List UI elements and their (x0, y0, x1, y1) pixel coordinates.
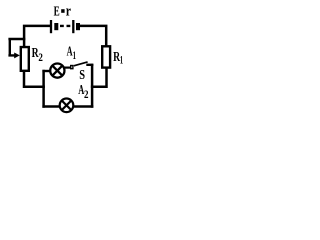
wire right junction vertical (91, 64, 94, 108)
rheostat R2 box (21, 47, 29, 71)
wire A2 branch left (42, 105, 60, 108)
svg-text:S: S (79, 68, 85, 83)
svg-text:E: E (54, 5, 60, 20)
wire R2 bottom to left junction (23, 72, 45, 87)
switch S lever (74, 62, 88, 66)
switch S fixed contact (86, 64, 93, 66)
lamp A2 (60, 99, 74, 113)
rheostat wiper wire (8, 38, 25, 56)
resistor R1 (102, 46, 110, 67)
wire battery to top-right corner (80, 26, 107, 46)
battery cell 2 short thick plate (76, 23, 80, 30)
svg-text:r: r (66, 4, 71, 20)
switch pivot (71, 66, 73, 69)
battery cell 1 long plate (50, 20, 52, 33)
wire A2 branch right (73, 105, 93, 108)
label A1 (67, 44, 77, 62)
battery dashed link (60, 25, 71, 27)
rheostat wiper arrowhead (14, 53, 20, 59)
wire top-left (corner to battery) (23, 26, 50, 47)
svg-text:2: 2 (38, 52, 43, 64)
wire left junction vertical (42, 70, 45, 108)
battery cell 2 long plate (72, 20, 74, 33)
svg-text:2: 2 (84, 89, 89, 101)
label E,r (54, 4, 72, 20)
lamp A1 (50, 64, 64, 78)
battery cell 1 short thick plate (54, 23, 58, 30)
wire A1 left (42, 70, 50, 72)
wire lamp A1 to switch pivot (65, 66, 71, 68)
svg-text:1: 1 (73, 50, 77, 62)
wire R1 bottom to junction bar (91, 68, 108, 87)
svg-text:1: 1 (120, 55, 123, 67)
label R1 (113, 49, 123, 67)
label R2 (32, 45, 43, 64)
label A2 (78, 82, 88, 101)
